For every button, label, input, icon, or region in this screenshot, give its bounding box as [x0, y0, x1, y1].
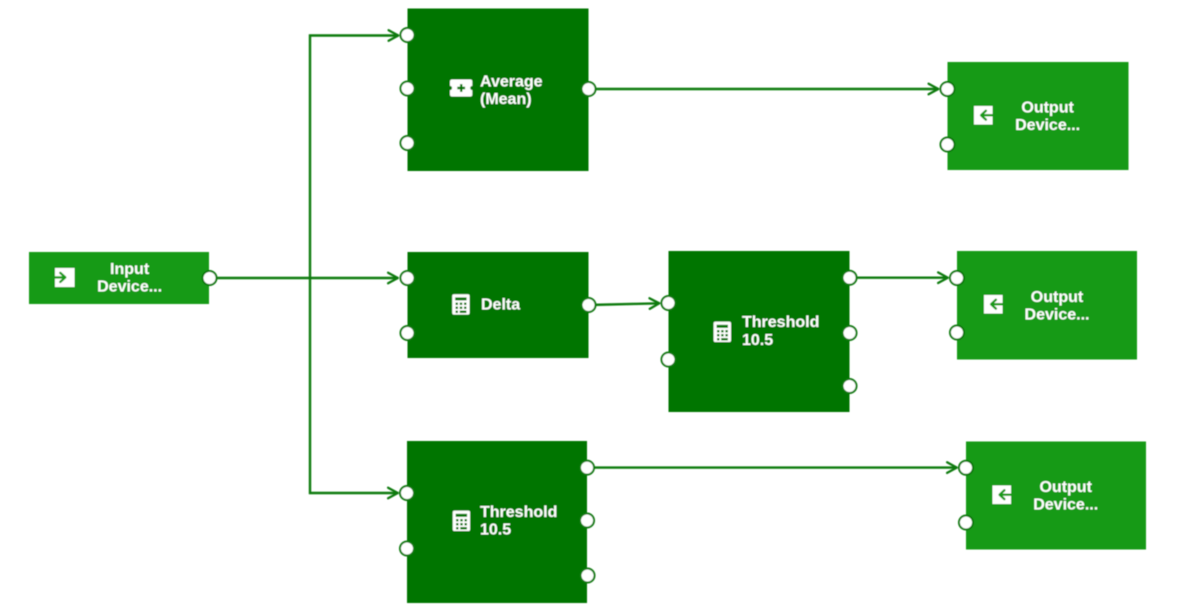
port OutputB.in1 [959, 461, 973, 475]
wire W2: branch up to Average (Mean) [310, 36, 399, 279]
svg-text:Delta: Delta [481, 296, 520, 313]
icon calculator (Delta) [452, 294, 469, 314]
port Delta.out [582, 298, 596, 312]
icon calculator (Threshold middle) [714, 322, 731, 342]
icon input-arrow [55, 268, 75, 287]
node Output Device bottom [966, 442, 1146, 550]
node Output Device top [948, 62, 1129, 170]
port Input.out [203, 271, 217, 285]
svg-text:Device...: Device... [1015, 117, 1080, 134]
wire W4: Average to Output Device (top) [589, 88, 939, 90]
node Average (Mean) [408, 9, 589, 172]
svg-text:Threshold: Threshold [480, 504, 557, 521]
port Average.in3 [401, 136, 415, 150]
svg-text:10.5: 10.5 [480, 522, 511, 539]
svg-text:Device...: Device... [97, 279, 162, 296]
port ThresholdB.out1 [580, 461, 594, 475]
port Average.out [582, 82, 596, 96]
port ThresholdB.in1 [400, 486, 414, 500]
svg-text:Threshold: Threshold [742, 314, 819, 331]
wire W1: Input Device to Delta (horizontal trunk) [210, 277, 398, 279]
wire W3: branch down to Threshold (bottom) [310, 278, 398, 493]
wire W5: Delta to Threshold (middle) [589, 303, 660, 305]
svg-text:Average: Average [480, 73, 543, 90]
port OutputM.in1 [950, 271, 964, 285]
port Average.in1 [401, 28, 415, 42]
port ThresholdM.out1 [843, 271, 857, 285]
svg-text:Output: Output [1021, 100, 1074, 117]
port ThresholdM.in1 [662, 296, 676, 310]
port OutputB.in2 [959, 516, 973, 530]
node Input Device (trigger) [29, 252, 209, 304]
svg-text:Device...: Device... [1033, 497, 1098, 514]
svg-text:Output: Output [1031, 289, 1084, 306]
port ThresholdM.out3 [843, 379, 857, 393]
port Delta.in2 [401, 326, 415, 340]
svg-text:Device...: Device... [1025, 307, 1090, 324]
wire W7: Threshold (bottom) to Output Device (bottom) [587, 466, 957, 468]
icon output-arrow (top) [974, 106, 993, 125]
port ThresholdM.out2 [843, 326, 857, 340]
svg-text:10.5: 10.5 [742, 332, 773, 349]
port ThresholdB.out3 [581, 569, 595, 583]
port ThresholdB.out2 [580, 514, 594, 528]
port OutputT.in1 [941, 82, 955, 96]
port OutputM.in2 [950, 326, 964, 340]
icon calculator (Threshold bottom) [453, 511, 470, 531]
icon output-arrow (bottom) [993, 486, 1012, 505]
port Delta.in1 [401, 271, 415, 285]
node Delta [408, 252, 589, 358]
port OutputT.in2 [941, 138, 955, 152]
port Average.in2 [401, 82, 415, 96]
port ThresholdB.in2 [400, 542, 414, 556]
icon average-ticket [450, 80, 472, 97]
node Output Device middle [957, 251, 1137, 360]
svg-text:Output: Output [1039, 479, 1092, 496]
port ThresholdM.in2 [662, 353, 676, 367]
svg-text:(Mean): (Mean) [480, 91, 532, 108]
node Threshold middle [669, 251, 850, 412]
node Threshold bottom [407, 441, 587, 603]
wire W6: Threshold (middle) to Output Device (middle) [850, 277, 949, 279]
icon output-arrow (middle) [984, 295, 1003, 314]
svg-text:Input: Input [110, 261, 150, 278]
